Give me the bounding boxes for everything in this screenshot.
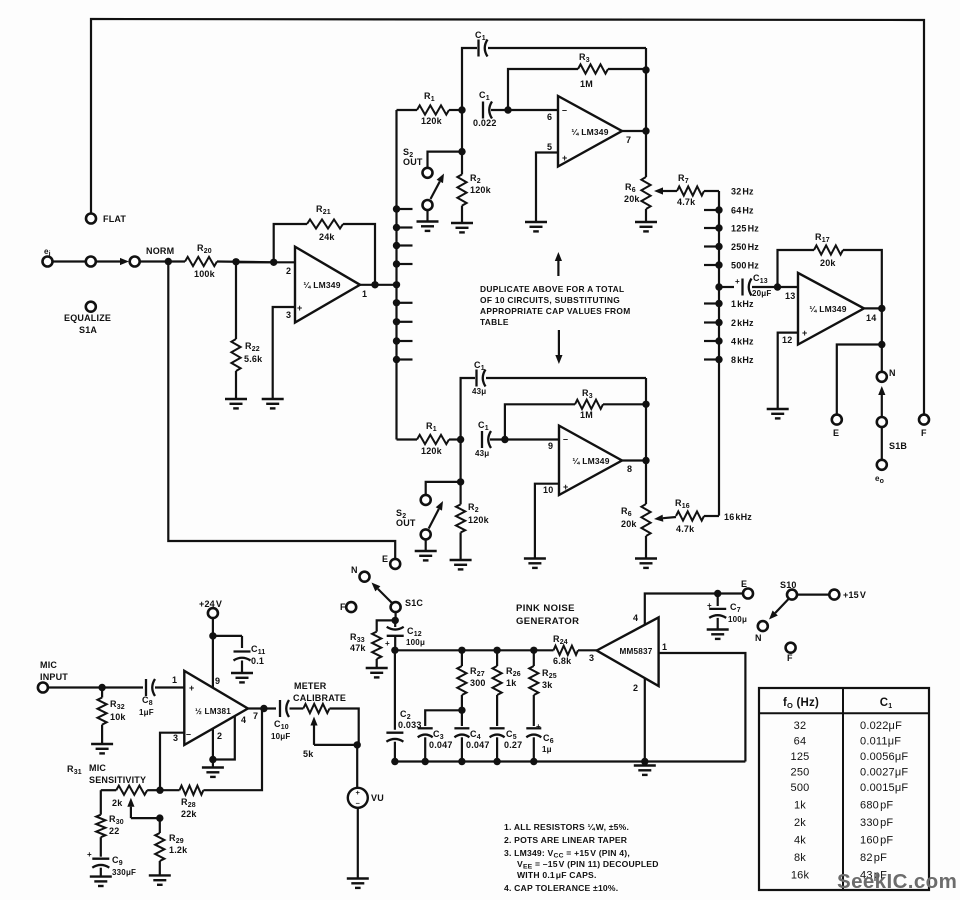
wire pin2: [236, 261, 295, 263]
wire e_i to pole: [53, 260, 86, 262]
terminal EQUALIZE: [86, 302, 96, 312]
svg-text:330μF: 330μF: [112, 868, 136, 877]
wire mic input: [48, 686, 143, 688]
svg-text:N: N: [351, 565, 358, 575]
op-amp U3 1/4 LM349 lower BPF: [559, 426, 622, 495]
svg-text:–: –: [186, 729, 191, 739]
svg-text:1: 1: [172, 675, 177, 685]
svg-text:¼ LM349: ¼ LM349: [303, 280, 340, 290]
svg-text:1: 1: [662, 642, 667, 652]
svg-text:82 pF: 82 pF: [860, 852, 887, 864]
capacitor C4: [461, 710, 463, 726]
wire pin3 and ground: [273, 307, 295, 399]
svg-text:120k: 120k: [468, 515, 490, 525]
wire FLAT-to-F top rail: [91, 19, 924, 415]
wire to pin 9: [490, 438, 559, 440]
svg-text:1k: 1k: [506, 678, 517, 688]
svg-text:VEE = –15 V (PIN 11) DECOUPLED: VEE = –15 V (PIN 11) DECOUPLED: [517, 859, 659, 871]
node C12 bottom: [391, 647, 398, 654]
svg-text:0.011μF: 0.011μF: [860, 735, 901, 747]
terminal +24V: [208, 608, 218, 618]
svg-text:20k: 20k: [820, 258, 836, 268]
svg-text:1M: 1M: [580, 79, 593, 89]
svg-text:680 pF: 680 pF: [860, 800, 893, 812]
svg-text:1 kHz: 1 kHz: [731, 299, 754, 309]
svg-text:47k: 47k: [350, 643, 366, 653]
svg-text:125: 125: [791, 751, 810, 763]
resistor R32: [101, 688, 103, 698]
capacitor C12: [394, 620, 396, 627]
svg-text:10k: 10k: [110, 712, 126, 722]
node C13 tap: [715, 283, 722, 290]
wire U3 output: [622, 459, 646, 461]
wire R7 to bus: [704, 190, 719, 192]
terminal N S10: [758, 621, 768, 631]
pot R31 2k: [101, 789, 116, 791]
ground R33: [366, 668, 388, 677]
svg-text:E: E: [741, 579, 747, 589]
wire U2 output: [622, 130, 646, 132]
svg-text:3: 3: [589, 653, 594, 663]
svg-text:0.0056μF: 0.0056μF: [860, 751, 908, 763]
capacitor C1 series lower: [482, 431, 491, 448]
ground C9: [90, 877, 112, 886]
capacitor C1 feedback lower: [461, 378, 475, 440]
svg-text:OUT: OUT: [403, 157, 423, 167]
wire R20 to node: [217, 260, 274, 263]
node C5 bottom: [493, 758, 500, 765]
node S1C junction: [392, 617, 399, 624]
ground S2 upper: [417, 222, 439, 231]
op-amp U5 1/2 LM381: [184, 671, 248, 745]
svg-text:METER: METER: [294, 681, 327, 691]
svg-text:3. LM349: VCC = +15 V (PIN 4): 3. LM349: VCC = +15 V (PIN 4),: [504, 848, 630, 860]
resistor R33: [377, 620, 396, 631]
svg-text:2: 2: [217, 731, 222, 741]
switch S2 lower: [421, 495, 431, 505]
svg-text:2k: 2k: [794, 817, 806, 829]
svg-text:+: +: [536, 722, 541, 731]
resistor R28: [160, 789, 180, 791]
terminal FLAT: [86, 214, 96, 224]
terminal +15V: [829, 590, 839, 600]
node bus tap: [393, 205, 400, 212]
svg-text:0.022μF: 0.022μF: [860, 720, 902, 732]
ground R6 upper: [635, 222, 657, 231]
arrow up duplicate: [557, 261, 559, 276]
terminal E output: [832, 415, 842, 425]
svg-text:S10: S10: [780, 580, 797, 590]
svg-text:22: 22: [109, 826, 119, 836]
svg-text:2 kHz: 2 kHz: [731, 318, 754, 328]
wire VU to ground: [357, 808, 359, 879]
svg-text:4.7k: 4.7k: [677, 197, 696, 207]
svg-text:+: +: [385, 639, 390, 648]
svg-text:+: +: [189, 683, 194, 693]
node bus tap: [393, 356, 400, 363]
svg-text:S1C: S1C: [405, 598, 423, 608]
svg-text:120k: 120k: [421, 116, 443, 126]
svg-text:NORM: NORM: [146, 246, 174, 256]
svg-text:4. CAP TOLERANCE ±10%.: 4. CAP TOLERANCE ±10%.: [504, 883, 618, 893]
wire pink noise bottom rail: [395, 760, 746, 762]
node tap 125 Hz: [715, 224, 722, 231]
wire R31 left to R30: [100, 790, 102, 815]
wire S10 to +15V: [797, 593, 829, 595]
node tap 250 Hz: [715, 243, 722, 250]
terminal MIC INPUT: [38, 683, 48, 693]
capacitor C1 feedback upper: [462, 48, 477, 110]
svg-text:0.022: 0.022: [473, 118, 497, 128]
wire R27 bottom to C3: [425, 710, 462, 726]
switch S2 upper arm: [431, 182, 440, 200]
svg-text:F: F: [787, 653, 793, 663]
svg-text:24k: 24k: [319, 232, 335, 242]
svg-text:1.2k: 1.2k: [169, 845, 188, 855]
ground R2 lower: [450, 560, 472, 569]
node R3 right upper: [642, 66, 649, 73]
terminal e_i input: [43, 257, 53, 267]
svg-text:¼ LM349: ¼ LM349: [572, 456, 609, 466]
resistor R20: [185, 257, 217, 266]
wire U1 output to bus: [360, 284, 397, 286]
wire R16 to bus: [704, 515, 719, 517]
svg-text:+: +: [356, 788, 361, 797]
switch S1C pole: [391, 602, 401, 612]
capacitor C8: [146, 679, 155, 696]
ground R2 upper: [451, 223, 473, 232]
resistor R1 lower: [417, 435, 449, 444]
svg-text:+: +: [707, 601, 712, 610]
switch S2 upper: [423, 168, 433, 178]
node U1 output: [371, 281, 378, 288]
wire S1C to node: [395, 612, 397, 620]
switch S1A arm arrow: [96, 260, 120, 262]
svg-text:32 Hz: 32 Hz: [731, 187, 754, 197]
svg-text:OF 10 CIRCUITS, SUBSTITUTING: OF 10 CIRCUITS, SUBSTITUTING: [480, 295, 620, 305]
svg-text:1. ALL RESISTORS ¼ W, ±5%.: 1. ALL RESISTORS ¼ W, ±5%.: [504, 822, 629, 832]
svg-text:SENSITIVITY: SENSITIVITY: [89, 775, 146, 785]
resistor R3 upper: [508, 69, 578, 110]
node output branch: [878, 341, 885, 348]
switch S1A pole: [86, 257, 96, 267]
node C6 bottom: [530, 758, 537, 765]
ground bottom rail: [641, 758, 648, 765]
ground pin2 U5: [202, 768, 224, 777]
resistor R26: [496, 650, 498, 666]
node U4 output: [878, 305, 885, 312]
node U3 output: [642, 457, 649, 464]
node S2/R2 lower: [457, 478, 464, 485]
ground pin5 U2: [525, 222, 547, 231]
node R31 wiper/R29: [156, 814, 163, 821]
wire pink noise top rail: [395, 649, 554, 651]
wire pin 4: [213, 716, 235, 760]
svg-text:20μF: 20μF: [752, 289, 771, 298]
resistor R6 upper pot: [641, 177, 650, 209]
svg-text:N: N: [889, 368, 896, 378]
wire bus to R1 lower: [397, 438, 418, 440]
switch S2 lower arm: [429, 509, 439, 529]
svg-text:4: 4: [633, 613, 638, 623]
resistor R6 lower pot: [641, 504, 650, 536]
switch S10 pole: [787, 590, 797, 600]
svg-text:3: 3: [173, 733, 178, 743]
svg-text:E: E: [382, 554, 388, 564]
op-amp U4 1/4 LM349 output: [798, 273, 864, 345]
node tap 2 kHz: [715, 319, 722, 326]
resistor R29: [159, 818, 161, 833]
svg-text:9: 9: [548, 441, 553, 451]
wire +24V down: [212, 618, 214, 688]
svg-text:+15 V: +15 V: [843, 590, 866, 600]
ground C7: [707, 630, 729, 639]
wire U4 output: [864, 307, 882, 309]
node R25 top: [530, 647, 537, 654]
svg-text:¼ LM349: ¼ LM349: [571, 127, 608, 137]
svg-text:1μF: 1μF: [139, 708, 154, 717]
capacitor C10: [280, 700, 289, 717]
ground S2 lower: [415, 551, 437, 560]
wire left bus: [395, 110, 397, 440]
node C4 bottom: [458, 758, 465, 765]
arrow down duplicate: [558, 330, 560, 355]
ground pin10 U3: [524, 559, 546, 568]
resistor R3 lower: [505, 404, 575, 439]
wire S2 to node: [428, 152, 463, 168]
noise IC U6 MM5837: [597, 617, 659, 686]
svg-text:500: 500: [791, 782, 810, 794]
wire output column upper: [645, 48, 647, 177]
svg-text:E: E: [833, 428, 839, 438]
pot R31 wiper arrow: [130, 807, 132, 818]
ground pin12 U4: [767, 409, 789, 418]
svg-text:43μ: 43μ: [472, 387, 486, 396]
svg-text:CALIBRATE: CALIBRATE: [293, 693, 346, 703]
resistor R16: [676, 511, 704, 520]
svg-text:8 kHz: 8 kHz: [731, 355, 754, 365]
op-amp U2 1/4 LM349 upper BPF: [558, 96, 622, 167]
node C2 bottom: [391, 758, 398, 765]
wire output down: [881, 308, 883, 344]
wire to C11: [213, 635, 242, 637]
node R20/R22/pin2: [232, 258, 239, 265]
svg-text:+: +: [297, 303, 302, 313]
wire node A2 down: [460, 440, 462, 482]
svg-text:100μ: 100μ: [728, 615, 747, 624]
resistor R2 lower: [460, 482, 462, 505]
switch S10 arm arrow: [775, 599, 788, 613]
svg-text:9: 9: [215, 676, 220, 686]
wire S2 lower ground stem: [425, 539, 427, 551]
resistor R21: [270, 259, 277, 266]
svg-text:–: –: [563, 434, 568, 444]
node bus tap: [393, 260, 400, 267]
terminal F output: [919, 415, 929, 425]
svg-text:+24 V: +24 V: [199, 599, 222, 609]
node bus tap: [393, 318, 400, 325]
terminal S1B pole: [877, 417, 887, 427]
node R27 bottom: [458, 707, 465, 714]
wire to VU: [356, 745, 358, 788]
node pin2/pin4 ground: [209, 756, 216, 763]
svg-text:1M: 1M: [580, 410, 593, 420]
node tap 1 kHz: [715, 300, 722, 307]
wire pin 5 ground: [536, 153, 558, 223]
svg-text:S1A: S1A: [79, 325, 97, 335]
node U2 output: [642, 127, 649, 134]
wire pin 12 ground: [778, 333, 798, 409]
svg-text:TABLE: TABLE: [480, 317, 509, 327]
wire to N terminal: [881, 345, 883, 372]
node bus tap: [393, 224, 400, 231]
node bus tap: [393, 242, 400, 249]
svg-text:16 kHz: 16 kHz: [724, 512, 752, 522]
resistor R2 upper: [461, 152, 463, 175]
svg-text:1μ: 1μ: [542, 745, 552, 754]
svg-text:5k: 5k: [303, 749, 314, 759]
capacitor C7: [717, 594, 719, 607]
wire pin 10 ground: [535, 484, 559, 559]
svg-text:4k: 4k: [794, 835, 806, 847]
svg-text:+: +: [563, 482, 568, 492]
svg-text:0.0027μF: 0.0027μF: [860, 767, 908, 779]
resistor R27: [461, 650, 463, 666]
svg-text:250: 250: [791, 767, 810, 779]
terminal E lower: [390, 559, 400, 569]
svg-text:WITH 0.1 μF CAPS.: WITH 0.1 μF CAPS.: [517, 870, 597, 880]
svg-text:N: N: [755, 633, 762, 643]
svg-text:32: 32: [794, 720, 807, 732]
wire pin 2 ground: [212, 729, 214, 760]
node C7 junction: [714, 590, 721, 597]
pot 5k wiper arrow: [313, 726, 315, 745]
capacitor C5: [490, 728, 505, 737]
wire pin 2 down: [644, 679, 646, 762]
capacitor C2: [394, 650, 396, 729]
svg-text:22k: 22k: [181, 809, 197, 819]
node mic/R32: [98, 684, 105, 691]
wire output column lower: [645, 378, 647, 504]
wire S2 lower to node: [426, 482, 461, 495]
table header divider: [759, 712, 929, 714]
svg-text:MIC: MIC: [89, 763, 106, 773]
ground R29: [149, 875, 171, 884]
svg-text:MIC: MIC: [40, 660, 57, 670]
svg-text:3k: 3k: [542, 680, 553, 690]
wire frequency bus: [718, 191, 720, 516]
resistor R1 upper: [417, 105, 449, 114]
svg-text:8k: 8k: [794, 852, 806, 864]
node A2: [457, 436, 464, 443]
svg-text:DUPLICATE ABOVE FOR A TOTAL: DUPLICATE ABOVE FOR A TOTAL: [480, 284, 624, 294]
svg-text:+: +: [802, 328, 807, 338]
node R31/R28/pin3: [156, 787, 163, 794]
svg-text:0.0015μF: 0.0015μF: [860, 782, 908, 794]
svg-text:F: F: [340, 602, 346, 612]
svg-text:10: 10: [543, 485, 553, 495]
node bus tap: [393, 337, 400, 344]
wire pin 4 up: [645, 594, 743, 626]
svg-text:5.6k: 5.6k: [244, 354, 263, 364]
ground R6 lower: [635, 559, 657, 568]
resistor R7: [677, 186, 704, 195]
wire U5 output: [248, 707, 276, 709]
svg-text:2: 2: [633, 683, 638, 693]
svg-text:20k: 20k: [621, 519, 637, 529]
pot R6 lower wiper arrow from R16: [663, 517, 676, 518]
node tap 8 kHz: [715, 356, 722, 363]
svg-text:–: –: [562, 105, 567, 115]
svg-text:14: 14: [866, 313, 876, 323]
ground VU: [347, 879, 369, 888]
ground R32: [91, 744, 113, 753]
terminal NORM: [130, 257, 140, 267]
svg-text:APPROPRIATE CAP VALUES FROM: APPROPRIATE CAP VALUES FROM: [480, 306, 631, 316]
svg-text:64 Hz: 64 Hz: [731, 206, 754, 216]
terminal F S1C: [346, 602, 356, 612]
svg-text:330 pF: 330 pF: [860, 817, 893, 829]
svg-text:S1B: S1B: [889, 441, 907, 451]
svg-text:300: 300: [470, 678, 486, 688]
svg-text:3: 3: [286, 310, 291, 320]
svg-text:SeekIC.com: SeekIC.com: [837, 870, 957, 893]
svg-text:0.27: 0.27: [504, 740, 522, 750]
wire R1 to node: [449, 109, 462, 111]
node bus tap: [393, 299, 400, 306]
wire to E terminal: [837, 345, 882, 415]
wire bus to R1: [397, 109, 418, 111]
svg-text:6.8k: 6.8k: [553, 656, 572, 666]
wire NORM to R20: [140, 260, 185, 262]
svg-text:FLAT: FLAT: [103, 214, 126, 224]
resistor R22: [235, 262, 237, 339]
svg-text:+: +: [735, 277, 740, 286]
node R3 right lower: [642, 401, 649, 408]
svg-text:7: 7: [253, 711, 258, 721]
node R27 top: [458, 647, 465, 654]
svg-text:0.1: 0.1: [251, 656, 264, 666]
svg-text:4: 4: [241, 715, 246, 725]
table cap values frame: [759, 688, 929, 890]
svg-text:16k: 16k: [791, 870, 810, 882]
node R26 top: [493, 647, 500, 654]
terminal E pink noise: [743, 589, 753, 599]
resistor R17: [778, 250, 815, 287]
node tap 500 Hz: [715, 261, 722, 268]
node B1: [504, 106, 511, 113]
pot R6 wiper arrow from R7: [663, 190, 677, 192]
switch S1B arm arrow: [881, 395, 883, 420]
ground R22: [225, 399, 247, 408]
svg-text:6: 6: [547, 112, 552, 122]
node C3 bottom: [422, 758, 429, 765]
svg-text:13: 13: [785, 291, 795, 301]
svg-text:100k: 100k: [194, 269, 216, 279]
svg-text:500 Hz: 500 Hz: [731, 261, 759, 271]
svg-text:2. POTS ARE LINEAR TAPER: 2. POTS ARE LINEAR TAPER: [504, 835, 628, 845]
wire S2 ground stem: [426, 210, 428, 222]
svg-text:2: 2: [286, 266, 291, 276]
svg-text:0.047: 0.047: [429, 740, 453, 750]
svg-text:¼ LM349: ¼ LM349: [809, 304, 846, 314]
node C13 right: [774, 283, 781, 290]
svg-text:PINK NOISE: PINK NOISE: [516, 603, 575, 614]
svg-text:120k: 120k: [421, 446, 443, 456]
svg-text:VU: VU: [371, 793, 384, 803]
terminal F S10: [786, 643, 796, 653]
svg-text:4 kHz: 4 kHz: [731, 337, 754, 347]
